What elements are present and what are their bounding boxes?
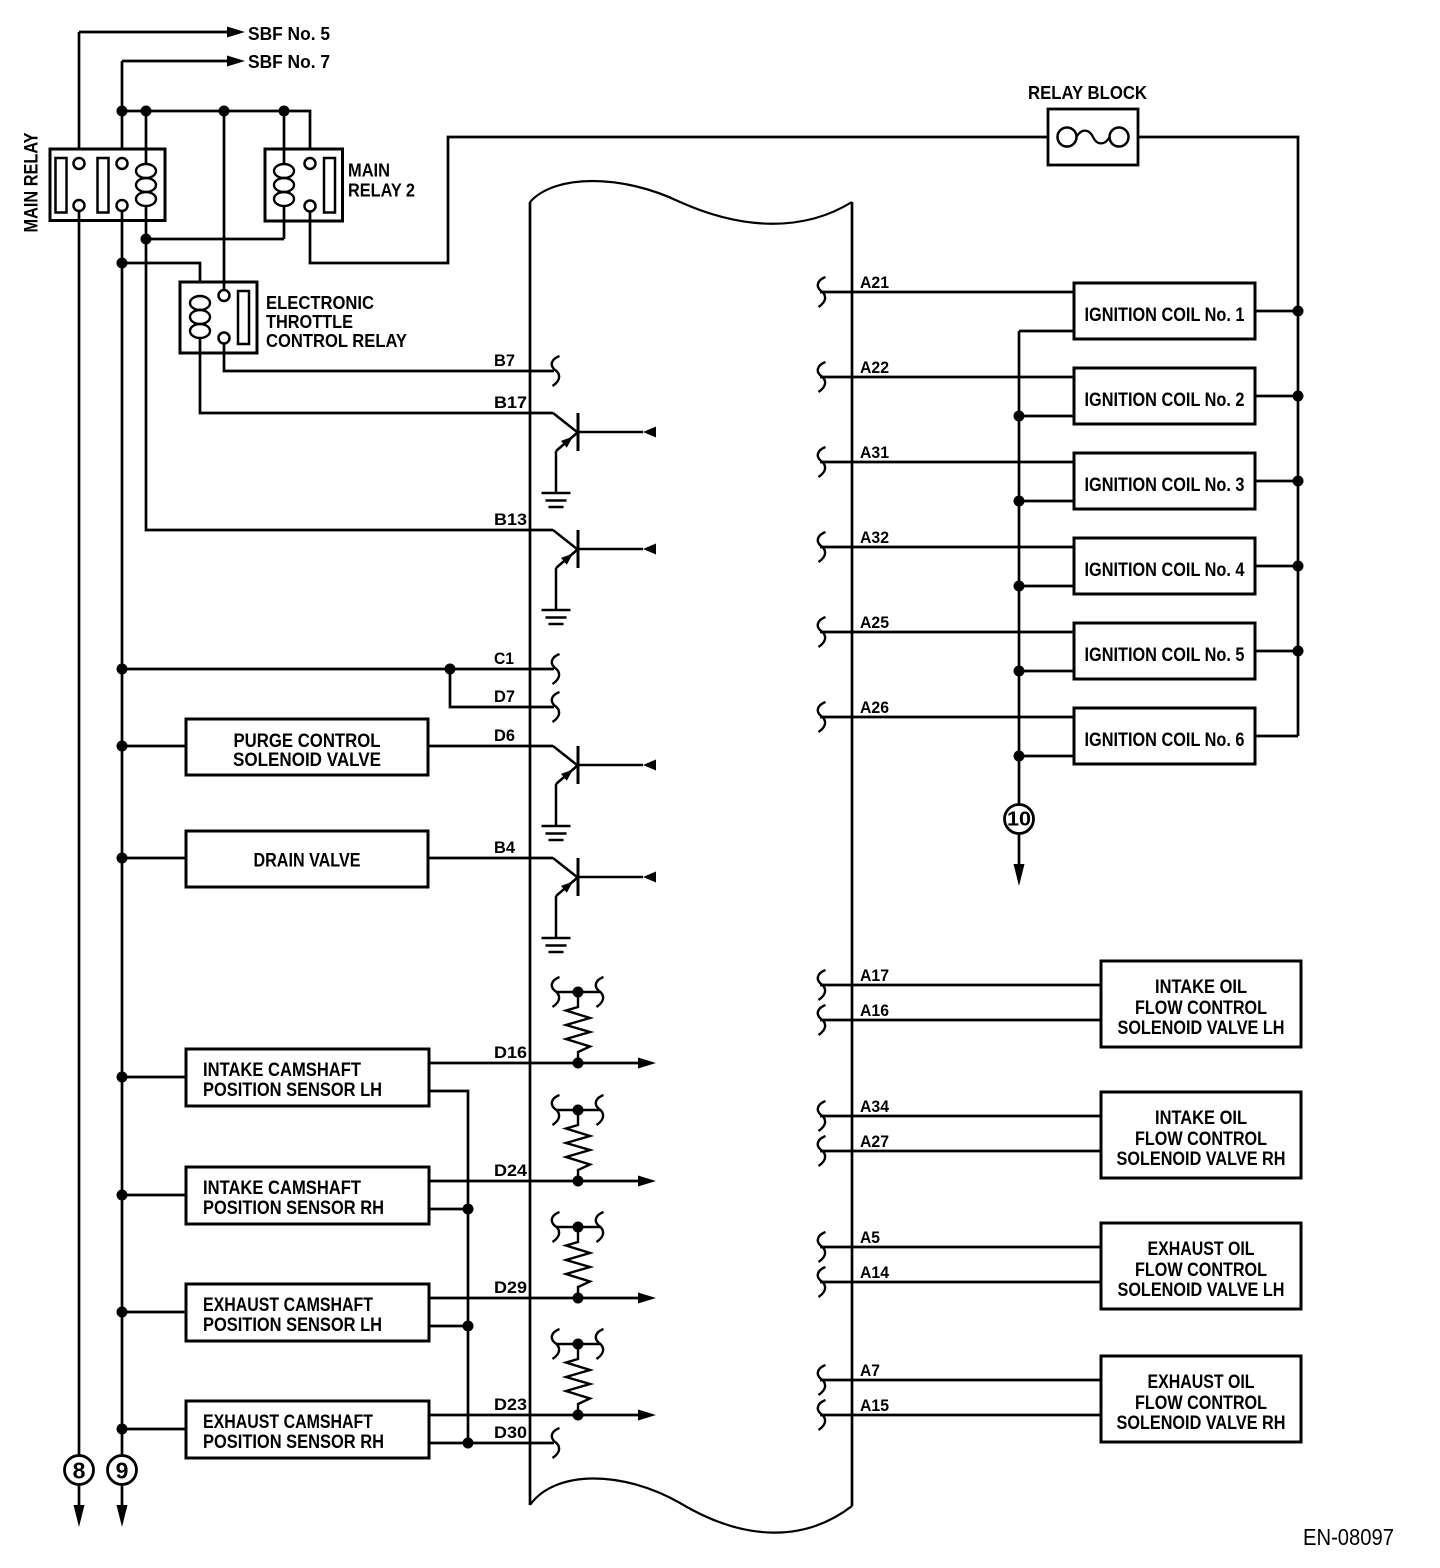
wire ETC relay coil low side to pin B17: [200, 338, 553, 413]
wire main relay contact 1 top feed: [78, 32, 81, 158]
svg-text:IGNITION COIL No. 6: IGNITION COIL No. 6: [1085, 730, 1245, 751]
arrowhead pin D16 signal: [638, 1058, 656, 1069]
svg-text:IGNITION COIL No. 1: IGNITION COIL No. 1: [1085, 305, 1245, 326]
EXHAUST CAMSHAFT POSITION SENSOR LH box: [186, 1284, 429, 1341]
ignition coil No. 1 box: [1074, 283, 1255, 339]
main relay 2 K2 coil: [283, 111, 286, 164]
INTAKE CAMSHAFT POSITION SENSOR RH box: [186, 1167, 429, 1224]
node return bus coil 6: [1014, 751, 1025, 762]
svg-text:SBF No. 7: SBF No. 7: [248, 52, 330, 72]
wire pin A27 to INTAKE OIL SOLENOID VALVE RH: [820, 1150, 1101, 1153]
svg-text:EXHAUST OIL: EXHAUST OIL: [1148, 1372, 1255, 1393]
wire sensor return bus: [429, 1091, 468, 1443]
pin A15 connector symbol: [818, 1400, 826, 1430]
wire pin A31 to ignition coil No. 3: [820, 461, 1074, 464]
svg-text:A16: A16: [860, 1001, 889, 1020]
svg-text:A17: A17: [860, 966, 889, 985]
wire left bus to EXHAUST CAMSHAFT POSITION SENSOR RH: [122, 1428, 186, 1431]
node bus sensor branch y1195: [117, 1190, 128, 1201]
node supply bus coil 2: [1293, 391, 1304, 402]
driver transistor Q4 (B4): [542, 858, 657, 952]
wire drain valve to pin B4: [428, 857, 553, 860]
svg-text:MAIN RELAY: MAIN RELAY: [22, 132, 43, 232]
EXHAUST CAMSHAFT POSITION SENSOR RH box: [186, 1401, 429, 1458]
node C1/D7 branch: [445, 664, 456, 675]
node bus sensor branch y1077: [117, 1072, 128, 1083]
wire left bus to purge valve: [122, 745, 186, 748]
arrow below terminal 10: [1018, 834, 1021, 864]
svg-text:D6: D6: [494, 726, 515, 745]
pin A5 connector symbol: [818, 1232, 826, 1262]
svg-text:EXHAUST CAMSHAFT: EXHAUST CAMSHAFT: [203, 1295, 373, 1316]
wire coil link node: [146, 238, 284, 241]
svg-text:A15: A15: [860, 1396, 889, 1415]
svg-text:D23: D23: [494, 1395, 527, 1414]
purge control solenoid valve box: [186, 719, 428, 775]
node supply bus coil 3: [1293, 476, 1304, 487]
wire pin C1 from left bus: [122, 668, 554, 671]
svg-text:FLOW CONTROL: FLOW CONTROL: [1135, 998, 1267, 1019]
INTAKE CAMSHAFT POSITION SENSOR LH box: [186, 1049, 429, 1106]
node bus/contact2: [117, 106, 128, 117]
svg-text:A31: A31: [860, 443, 889, 462]
svg-text:INTAKE CAMSHAFT: INTAKE CAMSHAFT: [203, 1178, 361, 1199]
wire ETC relay output to pin B7: [224, 344, 554, 372]
svg-text:D29: D29: [494, 1278, 527, 1297]
wire ignition coil No. 6 supply: [1255, 735, 1298, 738]
svg-text:POSITION SENSOR LH: POSITION SENSOR LH: [203, 1315, 382, 1336]
node left bus ETC branch: [117, 258, 128, 269]
EXHAUST OIL SOLENOID VALVE RH box: [1101, 1356, 1301, 1442]
pin A21 connector symbol: [818, 277, 826, 307]
wire ignition coil No. 6 ground return: [1019, 755, 1074, 758]
wire left bus to INTAKE CAMSHAFT POSITION SENSOR LH: [122, 1076, 186, 1079]
driver transistor Q3 (D6): [542, 746, 657, 840]
svg-text:B4: B4: [494, 838, 516, 857]
wire ignition coil No. 3 ground return: [1019, 500, 1074, 503]
INTAKE OIL SOLENOID VALVE RH box: [1101, 1092, 1301, 1178]
wire purge valve to pin D6: [428, 745, 553, 748]
wire pin A34 to INTAKE OIL SOLENOID VALVE RH: [820, 1115, 1101, 1118]
wire ETC relay contact feed from bus: [223, 111, 226, 290]
node supply bus coil 4: [1293, 561, 1304, 572]
svg-text:B13: B13: [494, 510, 527, 529]
arrowhead SBF No. 5: [227, 27, 245, 38]
arrowhead pin D24 signal: [638, 1176, 656, 1187]
svg-text:THROTTLE: THROTTLE: [266, 312, 353, 332]
svg-text:D7: D7: [494, 687, 515, 706]
wire pin A15 to EXHAUST OIL SOLENOID VALVE RH: [820, 1414, 1101, 1417]
node bus/ETC relay contact: [219, 106, 230, 117]
pin A26 connector symbol: [818, 702, 826, 732]
svg-text:INTAKE OIL: INTAKE OIL: [1155, 977, 1247, 998]
node coil link junction: [141, 234, 152, 245]
wire ignition coil No. 2 supply: [1255, 395, 1298, 398]
main relay K1: [50, 149, 165, 221]
svg-text:POSITION SENSOR LH: POSITION SENSOR LH: [203, 1080, 382, 1101]
arrowhead SBF No. 7: [227, 56, 245, 67]
wire left bus to EXHAUST CAMSHAFT POSITION SENSOR LH: [122, 1311, 186, 1314]
ECM connector boundary left edge: [529, 202, 532, 1505]
svg-text:EN-08097: EN-08097: [1303, 1524, 1394, 1550]
wire sensor signal to pin D24: [429, 1180, 641, 1183]
wire ignition coil No. 1 supply: [1255, 310, 1298, 313]
driver transistor Q1 (B17): [542, 413, 657, 507]
pin D30 connector symbol: [552, 1428, 560, 1458]
node return bus D30: [463, 1438, 474, 1449]
arrow below terminal 8: [78, 1484, 81, 1507]
wire pin A32 to ignition coil No. 4: [820, 546, 1074, 549]
wire sensor signal to pin D29: [429, 1297, 641, 1300]
pin A14 connector symbol: [818, 1267, 826, 1297]
wire left main bus (contact 1) to terminal 8: [78, 212, 81, 1457]
pull-up resistor network above pin D16: [552, 977, 604, 1069]
svg-text:A7: A7: [860, 1361, 880, 1380]
wire left bus to ETC relay coil: [122, 263, 200, 296]
wire pin D7 branch: [450, 669, 554, 707]
svg-text:INTAKE OIL: INTAKE OIL: [1155, 1108, 1247, 1129]
node supply bus coil 1: [1293, 306, 1304, 317]
node bus C1: [117, 664, 128, 675]
svg-text:IGNITION COIL No. 5: IGNITION COIL No. 5: [1085, 645, 1245, 666]
svg-text:PURGE CONTROL: PURGE CONTROL: [234, 731, 381, 752]
wire ignition coil common return bus: [1018, 331, 1021, 804]
driver transistor Q2 (B13): [542, 530, 657, 624]
terminal circle 10: [1005, 805, 1034, 834]
pin A25 connector symbol: [818, 617, 826, 647]
wire ignition coil No. 5 supply: [1255, 650, 1298, 653]
pin A17 connector symbol: [818, 970, 826, 1000]
svg-text:D30: D30: [494, 1423, 527, 1442]
ECM connector boundary bottom wavy edge: [530, 1478, 852, 1532]
wire sensor RH return stub: [429, 1208, 468, 1211]
svg-text:MAIN: MAIN: [348, 161, 390, 181]
drain valve box: [186, 831, 428, 887]
wire ignition coil No. 2 ground return: [1019, 415, 1074, 418]
svg-text:SOLENOID VALVE LH: SOLENOID VALVE LH: [1118, 1018, 1285, 1039]
wire left bus to INTAKE CAMSHAFT POSITION SENSOR RH: [122, 1194, 186, 1197]
wire pin A25 to ignition coil No. 5: [820, 631, 1074, 634]
arrowhead pin D29 signal: [638, 1293, 656, 1304]
arrowhead pin D23 signal: [638, 1410, 656, 1421]
svg-text:9: 9: [116, 1458, 129, 1484]
terminal circle 8: [65, 1456, 94, 1485]
node return bus coil 4: [1014, 581, 1025, 592]
svg-text:B7: B7: [494, 351, 515, 370]
wire to SBF No. 5: [79, 31, 228, 34]
wire pin A7 to EXHAUST OIL SOLENOID VALVE RH: [820, 1379, 1101, 1382]
wire sensor signal to pin D16: [429, 1062, 641, 1065]
svg-text:D24: D24: [494, 1161, 528, 1180]
wire left main bus (contact 2) to terminal 9: [121, 212, 124, 1457]
wire relay block to ignition coil supply bus: [1138, 137, 1298, 736]
relay block fuse housing: [1048, 109, 1138, 165]
EXHAUST OIL SOLENOID VALVE LH box: [1101, 1223, 1301, 1309]
node bus/main relay coil: [141, 106, 152, 117]
node bus/main relay 2 coil: [279, 106, 290, 117]
main relay 2 K2: [265, 149, 343, 221]
wire pin A26 to ignition coil No. 6: [820, 716, 1074, 719]
ignition coil No. 5 box: [1074, 623, 1255, 679]
pull-up resistor network above pin D24: [552, 1095, 604, 1187]
svg-text:SBF No. 5: SBF No. 5: [248, 24, 330, 44]
svg-text:A25: A25: [860, 613, 889, 632]
svg-text:A26: A26: [860, 698, 889, 717]
svg-text:FLOW CONTROL: FLOW CONTROL: [1135, 1129, 1267, 1150]
svg-text:INTAKE CAMSHAFT: INTAKE CAMSHAFT: [203, 1060, 361, 1081]
node return bus coil 2: [1014, 411, 1025, 422]
svg-text:SOLENOID VALVE RH: SOLENOID VALVE RH: [1117, 1149, 1286, 1170]
svg-text:A21: A21: [860, 273, 889, 292]
node return bus coil 5: [1014, 666, 1025, 677]
wire pin A21 to ignition coil No. 1: [820, 291, 1074, 294]
node return bus exhaust LH: [463, 1321, 474, 1332]
wire ignition coil No. 4 supply: [1255, 565, 1298, 568]
node bus drain branch: [117, 853, 128, 864]
wire sensor signal to pin D23: [429, 1414, 641, 1417]
svg-text:A27: A27: [860, 1132, 889, 1151]
wire main relay coil low side to pin B13: [146, 239, 553, 530]
svg-text:RELAY 2: RELAY 2: [348, 181, 415, 201]
wire to SBF No. 7: [122, 60, 228, 63]
svg-text:ELECTRONIC: ELECTRONIC: [266, 293, 374, 313]
svg-text:SOLENOID VALVE LH: SOLENOID VALVE LH: [1118, 1280, 1285, 1301]
wire pin A16 to INTAKE OIL SOLENOID VALVE LH: [820, 1019, 1101, 1022]
pin D7 connector symbol: [552, 692, 560, 722]
pin A7 connector symbol: [818, 1365, 826, 1395]
pull-up resistor network above pin D23: [552, 1329, 604, 1421]
svg-text:D16: D16: [494, 1043, 527, 1062]
svg-text:C1: C1: [494, 649, 514, 668]
svg-text:A34: A34: [860, 1097, 890, 1116]
wire main relay 2 output to relay block fuse: [310, 137, 1048, 263]
arrow below terminal 9: [121, 1484, 124, 1507]
wire pin A17 to INTAKE OIL SOLENOID VALVE LH: [820, 984, 1101, 987]
svg-text:IGNITION COIL No. 3: IGNITION COIL No. 3: [1085, 475, 1245, 496]
terminal circle 9: [108, 1456, 137, 1485]
wire pin A5 to EXHAUST OIL SOLENOID VALVE LH: [820, 1246, 1101, 1249]
svg-text:FLOW CONTROL: FLOW CONTROL: [1135, 1393, 1267, 1414]
wire ignition coil No. 5 ground return: [1019, 670, 1074, 673]
pin A32 connector symbol: [818, 532, 826, 562]
svg-text:IGNITION COIL No. 4: IGNITION COIL No. 4: [1085, 560, 1245, 581]
svg-text:CONTROL RELAY: CONTROL RELAY: [266, 331, 407, 351]
svg-text:8: 8: [73, 1458, 86, 1484]
wire pin A14 to EXHAUST OIL SOLENOID VALVE LH: [820, 1281, 1101, 1284]
pin A31 connector symbol: [818, 447, 826, 477]
pin A22 connector symbol: [818, 362, 826, 392]
ignition coil No. 3 box: [1074, 453, 1255, 509]
pull-up resistor network above pin D29: [552, 1212, 604, 1304]
ignition coil No. 6 box: [1074, 708, 1255, 764]
main relay K1 coil: [145, 111, 148, 164]
svg-text:EXHAUST CAMSHAFT: EXHAUST CAMSHAFT: [203, 1412, 373, 1433]
svg-text:DRAIN VALVE: DRAIN VALVE: [254, 851, 361, 872]
wire main relay contact 2 top feed: [121, 61, 124, 158]
svg-text:A5: A5: [860, 1228, 880, 1247]
svg-text:POSITION SENSOR RH: POSITION SENSOR RH: [203, 1198, 384, 1219]
svg-text:A22: A22: [860, 358, 889, 377]
svg-text:B17: B17: [494, 393, 527, 412]
pin A16 connector symbol: [818, 1005, 826, 1035]
pin A27 connector symbol: [818, 1136, 826, 1166]
ignition coil No. 2 box: [1074, 368, 1255, 424]
wire ignition coil No. 4 ground return: [1019, 585, 1074, 588]
svg-text:A32: A32: [860, 528, 889, 547]
wire ignition coil No. 1 ground return: [1019, 330, 1074, 333]
node bus sensor branch y1429: [117, 1424, 128, 1435]
pin C1 connector symbol: [552, 654, 560, 684]
wire sensor return to pin D30: [429, 1442, 554, 1445]
ETC relay coil: [190, 296, 210, 338]
fuse element: [1058, 128, 1077, 147]
wire top distribution bus: [122, 111, 310, 158]
svg-text:POSITION SENSOR RH: POSITION SENSOR RH: [203, 1432, 384, 1453]
pin B7 connector symbol: [552, 356, 560, 386]
svg-text:SOLENOID VALVE RH: SOLENOID VALVE RH: [1117, 1413, 1286, 1434]
svg-text:FLOW CONTROL: FLOW CONTROL: [1135, 1260, 1267, 1281]
wire left bus to drain valve: [122, 857, 186, 860]
svg-text:A14: A14: [860, 1263, 890, 1282]
wire ignition coil No. 3 supply: [1255, 480, 1298, 483]
INTAKE OIL SOLENOID VALVE LH box: [1101, 961, 1301, 1047]
ECM connector boundary top wavy edge: [530, 181, 852, 224]
electronic throttle control relay K3: [180, 282, 257, 353]
svg-text:EXHAUST OIL: EXHAUST OIL: [1148, 1239, 1255, 1260]
wire pin A22 to ignition coil No. 2: [820, 376, 1074, 379]
node bus sensor branch y1312: [117, 1307, 128, 1318]
ECM connector boundary right edge: [851, 202, 854, 1506]
node bus purge branch: [117, 741, 128, 752]
node return bus RH intake: [463, 1204, 474, 1215]
node return bus coil 3: [1014, 496, 1025, 507]
svg-text:IGNITION COIL No. 2: IGNITION COIL No. 2: [1085, 390, 1245, 411]
ignition coil No. 4 box: [1074, 538, 1255, 594]
svg-text:RELAY BLOCK: RELAY BLOCK: [1028, 83, 1147, 103]
wire sensor exhaust LH return stub: [429, 1325, 468, 1328]
svg-text:10: 10: [1007, 809, 1031, 831]
pin A34 connector symbol: [818, 1101, 826, 1131]
node supply bus coil 5: [1293, 646, 1304, 657]
svg-text:SOLENOID VALVE: SOLENOID VALVE: [233, 750, 381, 771]
